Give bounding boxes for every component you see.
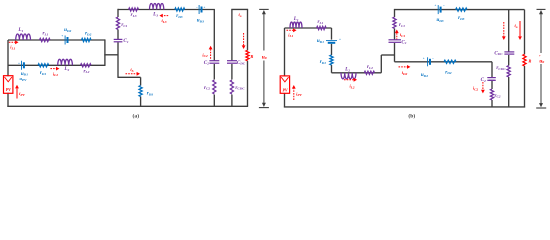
resistor r_L2 xyxy=(81,64,92,67)
capacitor C1 of (b) xyxy=(389,39,402,41)
dependent source u_D2 xyxy=(64,36,66,45)
svg-text:rC1: rC1 xyxy=(399,22,405,28)
current arrow i_S xyxy=(126,73,137,75)
svg-text:L2: L2 xyxy=(63,66,69,72)
resistor r_D1 of (b) xyxy=(330,55,333,65)
wire: top branch of (b) xyxy=(285,27,332,29)
svg-text:(b): (b) xyxy=(408,112,415,119)
svg-text:uo: uo xyxy=(539,58,544,64)
resistor r_C2 of (b) xyxy=(490,89,493,100)
wire: diode branch vertical xyxy=(331,28,333,40)
resistor r_D2 xyxy=(82,38,92,41)
svg-text:uD1: uD1 xyxy=(21,71,28,77)
svg-text:PV: PV xyxy=(6,87,11,92)
wire: H connector to C1 branch xyxy=(104,54,118,56)
capacitor C2 xyxy=(209,60,219,62)
svg-text:rL2: rL2 xyxy=(83,68,89,74)
resistor r_D3 of (b) xyxy=(456,8,467,11)
svg-text:PV: PV xyxy=(282,87,287,92)
resistor r_L2 of (b) xyxy=(364,71,374,74)
svg-text:iL2: iL2 xyxy=(53,71,58,77)
wire: load R branch vertical xyxy=(247,9,249,50)
current arrow i_C2 xyxy=(210,49,212,58)
inductor L3 xyxy=(150,4,164,10)
svg-text:rL3: rL3 xyxy=(131,12,137,18)
inductor L1 xyxy=(16,34,31,40)
PV source box of (b) xyxy=(280,76,289,93)
current arrow i_PV xyxy=(16,88,18,98)
svg-text:iL2: iL2 xyxy=(349,84,354,90)
dependent source u_D3 of (b) xyxy=(437,5,439,14)
svg-text:uD3: uD3 xyxy=(436,17,443,23)
svg-text:+: + xyxy=(539,54,541,58)
svg-text:rDS: rDS xyxy=(147,91,154,97)
voltage arrow u_o top of (b) xyxy=(537,8,546,10)
PV source box xyxy=(4,76,13,94)
wire: node link xyxy=(381,54,394,56)
svg-text:rL1: rL1 xyxy=(42,31,48,37)
svg-text:rC2: rC2 xyxy=(204,85,210,91)
wire: switch link horizontal xyxy=(118,76,141,78)
current arrow i_L2 of (b) xyxy=(344,79,354,81)
voltage arrow u_o bottom xyxy=(263,61,265,105)
wire: mid branch of (b) xyxy=(395,61,493,63)
wire: C2 branch vertical of (b) xyxy=(491,62,493,78)
wire: L2 branch of (b) xyxy=(332,72,382,74)
capacitor C2 of (b) xyxy=(487,77,496,79)
svg-text:uo: uo xyxy=(262,54,267,60)
svg-text:+: + xyxy=(203,6,205,10)
wire: C1 branch vertical xyxy=(117,9,119,17)
inductor L1 of (b) xyxy=(290,22,302,28)
svg-text:C2: C2 xyxy=(204,60,209,66)
svg-text:rD2: rD2 xyxy=(445,69,452,75)
voltage arrow u_o bottom of (b) xyxy=(540,64,542,105)
wire: R branch vertical of (b) xyxy=(524,10,526,55)
svg-text:rC2: rC2 xyxy=(494,93,500,99)
svg-text:rD3: rD3 xyxy=(458,15,465,21)
svg-text:rL2: rL2 xyxy=(367,64,373,70)
svg-text:uD3: uD3 xyxy=(197,18,204,24)
svg-text:rC1: rC1 xyxy=(121,22,127,28)
svg-text:+: + xyxy=(339,38,341,42)
resistor R of (b) xyxy=(523,54,526,66)
current arrow i_PV of (b) xyxy=(293,89,295,100)
wire: top rail of (a) xyxy=(118,9,215,11)
svg-text:iPV: iPV xyxy=(19,91,25,97)
svg-text:iC2: iC2 xyxy=(473,86,479,92)
wire: bottom rail of (b) xyxy=(284,106,525,108)
wire: C2 branch vertical xyxy=(213,10,215,61)
wire: riser to node xyxy=(380,55,382,73)
wire: C1 branch vertical of (b) xyxy=(394,9,396,17)
dependent source u_D2 of (b) xyxy=(427,57,429,66)
wire: CDC branch vertical xyxy=(231,9,233,60)
svg-text:+: + xyxy=(18,61,20,65)
svg-text:+: + xyxy=(434,4,436,8)
current arrow i_C2 of (b) xyxy=(482,82,484,90)
svg-text:rD1: rD1 xyxy=(40,70,47,76)
svg-text:rD1: rD1 xyxy=(320,59,327,65)
current arrow i_D2 of (b) xyxy=(399,66,408,68)
svg-text:iL1: iL1 xyxy=(10,45,15,51)
resistor r_DS xyxy=(139,86,142,97)
svg-text:CDC: CDC xyxy=(494,50,503,56)
svg-text:+: + xyxy=(423,57,425,61)
svg-text:rD3: rD3 xyxy=(176,13,183,19)
svg-text:L2: L2 xyxy=(344,67,350,73)
current arrow i_L2 xyxy=(50,68,56,70)
svg-text:iL3: iL3 xyxy=(161,18,166,24)
wire: output mini rail of (a) xyxy=(231,8,248,10)
wire: right connector between branches xyxy=(104,39,106,66)
svg-text:iPV: iPV xyxy=(296,91,302,97)
svg-text:+: + xyxy=(61,34,63,38)
wire: top branch of (a) xyxy=(8,39,105,41)
svg-text:iC1: iC1 xyxy=(400,32,406,38)
inductor L2 xyxy=(58,59,73,65)
resistor r_C1 of (b) xyxy=(393,17,396,29)
resistor r_L1 xyxy=(40,38,51,41)
current arrow i_CDC of (b) xyxy=(503,22,505,36)
resistor R xyxy=(246,50,249,61)
resistor r_CDC xyxy=(230,80,233,94)
voltage arrow u_o top xyxy=(259,8,269,10)
wire: bottom rail of (a) xyxy=(7,105,248,107)
svg-text:uD1: uD1 xyxy=(317,38,324,44)
dependent source u_D1 of (b) xyxy=(326,40,337,42)
svg-text:(a): (a) xyxy=(133,112,140,119)
svg-text:io: io xyxy=(515,23,518,29)
current arrow i_L1 of (b) xyxy=(287,29,294,31)
resistor r_D1 xyxy=(38,64,49,67)
svg-text:C1: C1 xyxy=(123,38,128,44)
current arrow i_L1 xyxy=(9,41,15,43)
svg-text:io: io xyxy=(239,12,242,18)
wire: top rail of (b) xyxy=(395,9,525,11)
capacitor C_DC of (b) xyxy=(504,51,514,53)
current arrow i_L3 xyxy=(163,15,168,17)
wire: bottom branch of (a) xyxy=(8,64,105,66)
wire: left vertical of (b) xyxy=(284,28,286,76)
svg-text:rD2: rD2 xyxy=(85,31,92,37)
resistor r_L1 of (b) xyxy=(317,26,327,29)
svg-text:rCDC: rCDC xyxy=(496,65,506,71)
resistor r_C2 xyxy=(213,80,216,94)
resistor r_D2 of (b) xyxy=(444,60,456,63)
wire: CDC branch vertical of (b) xyxy=(508,10,510,52)
inductor L2 of (b) xyxy=(341,73,356,79)
dependent source u_D3 xyxy=(198,5,200,14)
svg-text:R: R xyxy=(250,54,253,59)
svg-text:−: − xyxy=(196,6,198,10)
capacitor C1 xyxy=(114,38,123,40)
svg-text:L1: L1 xyxy=(17,27,23,33)
svg-text:uD2: uD2 xyxy=(64,27,71,33)
current arrow i_o xyxy=(243,33,245,45)
svg-text:L3: L3 xyxy=(152,12,158,18)
svg-text:iS: iS xyxy=(130,67,133,73)
current arrow i_o of (b) xyxy=(519,21,521,36)
resistor r_L3 xyxy=(129,8,139,11)
svg-text:R: R xyxy=(528,59,531,64)
svg-text:C1: C1 xyxy=(401,39,406,45)
svg-text:rL1: rL1 xyxy=(317,19,323,25)
wire: left vertical (source to branches) xyxy=(7,40,9,76)
wire: switch branch vertical xyxy=(140,77,142,85)
current arrow i_C1 of (b) xyxy=(396,33,398,40)
svg-text:−: − xyxy=(432,57,434,61)
svg-text:CDC: CDC xyxy=(237,60,246,66)
resistor r_D3 xyxy=(175,8,185,11)
svg-text:iC2: iC2 xyxy=(202,52,208,58)
svg-text:iD2: iD2 xyxy=(402,70,408,76)
dependent source u_D1 xyxy=(21,61,23,70)
svg-text:rCDC: rCDC xyxy=(235,85,245,91)
resistor r_CDC of (b) xyxy=(507,66,510,78)
svg-text:iL1: iL1 xyxy=(288,32,293,38)
svg-text:uD2: uD2 xyxy=(421,72,428,78)
capacitor C_DC xyxy=(227,60,237,62)
svg-text:−: − xyxy=(443,4,445,8)
resistor r_C1 xyxy=(116,17,119,30)
svg-text:L1: L1 xyxy=(293,16,299,22)
